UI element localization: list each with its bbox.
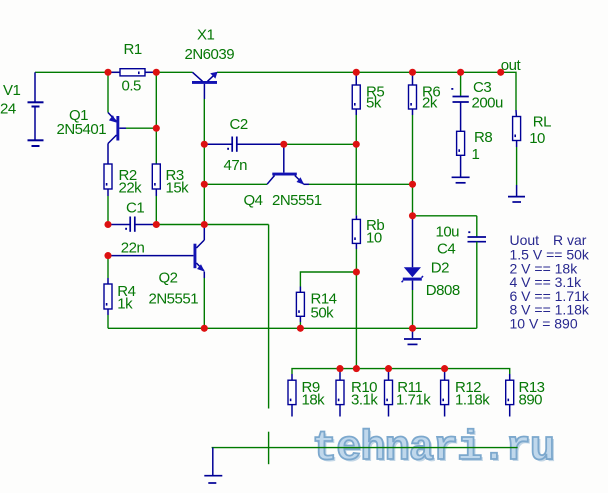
transistor Q1 — [57, 72, 127, 164]
wire Q4 emitter to R6 column — [309, 183, 413, 185]
watermark tehnari.ru — [312, 424, 556, 474]
wire R6 column down — [412, 115, 414, 216]
svg-text:C4: C4 — [437, 241, 455, 258]
svg-text:C3: C3 — [473, 79, 491, 96]
svg-text:2N6039: 2N6039 — [185, 46, 235, 63]
svg-text:10u: 10u — [436, 223, 460, 240]
capacitor C4 — [436, 216, 487, 258]
svg-text:18k: 18k — [302, 392, 326, 409]
battery V1 — [28, 72, 44, 146]
svg-text:1: 1 — [472, 146, 480, 163]
svg-text:10: 10 — [529, 130, 545, 147]
resistor R1 — [108, 41, 156, 95]
resistor R9 — [288, 374, 325, 417]
transistor Q4 — [244, 144, 322, 209]
resistor R11 — [385, 369, 432, 417]
svg-text:10: 10 — [366, 230, 382, 247]
wire Q2 emitter down to rail — [203, 278, 205, 328]
svg-text:R1: R1 — [124, 41, 142, 58]
wire C4 bottom to rail — [476, 242, 478, 329]
wire R2 bottom to C1 node — [107, 196, 109, 225]
wire R3 bottom to node — [155, 196, 157, 225]
svg-text:3.1k: 3.1k — [351, 392, 378, 409]
resistor R2 — [104, 164, 142, 197]
wire bottom horizontal — [212, 447, 518, 449]
svg-text:890: 890 — [519, 392, 543, 409]
svg-text:X1: X1 — [197, 27, 215, 44]
wire R4 bottom to rail — [107, 315, 109, 328]
svg-text:Q4: Q4 — [244, 192, 263, 209]
svg-text:0.5: 0.5 — [122, 78, 142, 95]
svg-text:C1: C1 — [126, 199, 144, 216]
svg-text:R var: R var — [553, 232, 587, 248]
svg-text:Q2: Q2 — [159, 270, 178, 287]
resistor RL — [513, 110, 552, 147]
resistor R6 — [409, 72, 441, 115]
svg-text:R8: R8 — [474, 129, 492, 146]
wire X1 base down — [203, 99, 205, 144]
svg-text:RL: RL — [533, 113, 551, 130]
ground bottom left — [204, 448, 222, 483]
diode D2 — [402, 216, 460, 299]
svg-text:50k: 50k — [311, 305, 335, 322]
wire C2 node to R5 node — [284, 143, 356, 145]
resistor Rb — [352, 144, 384, 249]
wire top rail right segment — [217, 72, 516, 110]
wire resistor row — [292, 369, 510, 374]
annotation table Uout / R var — [510, 232, 590, 332]
capacitor C1 — [108, 199, 156, 256]
wire Rb bottom to node — [355, 249, 357, 272]
transistor X1 — [185, 27, 235, 100]
ground below RL — [508, 185, 525, 202]
wire Q4 collector to node — [204, 183, 267, 185]
svg-text:D2: D2 — [431, 260, 449, 277]
resistor R3 — [152, 164, 189, 197]
svg-text:1.71k: 1.71k — [396, 392, 431, 409]
svg-text:C2: C2 — [230, 116, 248, 133]
wire node down to row wire — [355, 272, 357, 369]
svg-text:2N5551: 2N5551 — [272, 192, 322, 209]
ground below D2 node — [404, 328, 421, 344]
resistor R10 — [336, 369, 378, 417]
svg-text:2N5401: 2N5401 — [57, 121, 107, 138]
svg-text:22n: 22n — [121, 239, 145, 256]
svg-text:5k: 5k — [366, 95, 382, 112]
wire top rail left segment — [35, 71, 193, 73]
resistor R14 — [296, 272, 356, 322]
wire corner down (upper segment) — [268, 225, 270, 409]
wire D2 to rail — [412, 290, 414, 328]
svg-text:D808: D808 — [426, 282, 460, 299]
wire R14 bottom to rail — [299, 322, 301, 328]
wire bottom rail — [108, 327, 477, 329]
resistor R5 — [352, 72, 384, 115]
capacitor C2 — [204, 116, 283, 174]
wire Q1 base to node — [126, 127, 156, 129]
svg-text:2k: 2k — [422, 95, 438, 112]
wire C1 node to corner — [156, 224, 268, 226]
svg-text:V1: V1 — [3, 82, 21, 99]
svg-text:22k: 22k — [119, 180, 143, 197]
svg-text:2N5551: 2N5551 — [149, 291, 199, 308]
wire node R1-right down — [155, 72, 157, 128]
resistor R12 — [441, 369, 491, 417]
svg-text:1.18k: 1.18k — [455, 392, 490, 409]
svg-text:1k: 1k — [117, 295, 133, 312]
svg-text:10 V = 890: 10 V = 890 — [510, 315, 578, 331]
resistor R4 — [104, 256, 136, 315]
resistor R13 — [506, 374, 545, 417]
ground below R8 — [452, 177, 470, 183]
wire node to C4 corner — [413, 215, 477, 217]
svg-text:24: 24 — [0, 101, 16, 118]
svg-text:47n: 47n — [224, 157, 248, 174]
svg-text:Uout: Uout — [510, 232, 540, 248]
wire R5 bottom to node — [355, 115, 357, 144]
wire node base down to R3 — [155, 128, 157, 164]
transistor Q2 — [108, 225, 205, 308]
resistor R8 — [457, 129, 493, 177]
wire RL to ground — [516, 147, 518, 185]
svg-text:15k: 15k — [166, 180, 190, 197]
wire lower segment — [268, 432, 270, 465]
wire x204 column — [203, 144, 205, 224]
capacitor C3 — [451, 72, 503, 131]
svg-text:200u: 200u — [472, 95, 504, 112]
